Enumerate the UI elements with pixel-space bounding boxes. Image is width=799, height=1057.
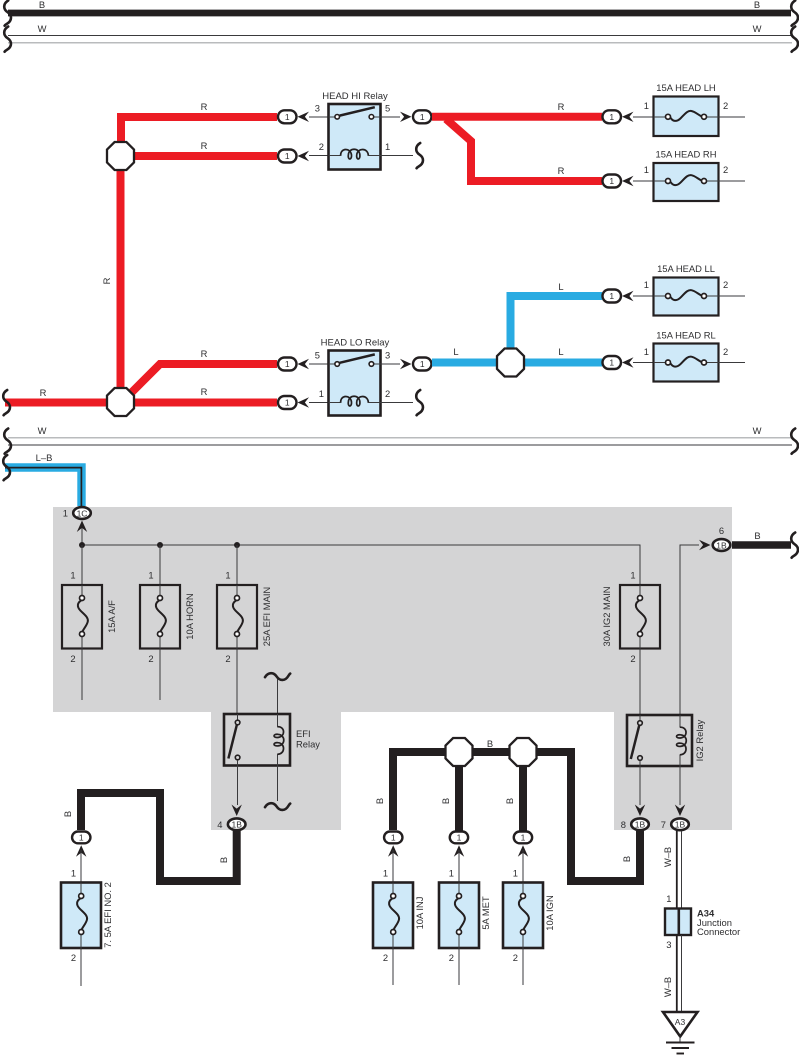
net label W (top right) bbox=[753, 23, 762, 34]
svg-text:15A HEAD RL: 15A HEAD RL bbox=[656, 330, 715, 341]
wire break (LO pin 2) bbox=[416, 390, 423, 415]
pin 3 label (HI) bbox=[315, 103, 320, 114]
svg-text:1: 1 bbox=[513, 868, 518, 879]
wire from LO relay pin 3 bbox=[381, 363, 401, 365]
svg-text:B: B bbox=[440, 798, 451, 804]
svg-text:4: 4 bbox=[217, 819, 222, 830]
svg-text:2: 2 bbox=[319, 141, 324, 152]
svg-text:R: R bbox=[201, 140, 208, 151]
svg-text:15A A/F: 15A A/F bbox=[106, 600, 117, 633]
wire to LO relay pin 1 bbox=[309, 402, 328, 404]
junction node (red, lower octagon) bbox=[107, 388, 134, 416]
pin 2 label (HEAD RH) bbox=[723, 164, 728, 175]
junction connector A34 bbox=[665, 908, 740, 938]
pin 1 label (7.5A EFI NO.2) bbox=[71, 868, 76, 879]
svg-text:1: 1 bbox=[383, 868, 388, 879]
svg-text:1: 1 bbox=[63, 508, 68, 519]
wire bus to fuse 30A IG2 MAIN (vertical) bbox=[639, 545, 641, 585]
wire break (bus W right) bbox=[791, 27, 798, 52]
wire label L (to HEAD LL) bbox=[558, 281, 563, 292]
pin 2 label (5A MET) bbox=[449, 952, 454, 963]
pin 1 label (15A A/F) bbox=[70, 570, 75, 581]
connector 1B (pin 4, EFI relay out) bbox=[228, 818, 246, 830]
pin 1 label (HEAD RL) bbox=[644, 346, 649, 357]
wire to HI relay pin 3 bbox=[309, 116, 328, 118]
wire bus to fuse 25A EFI MAIN bbox=[236, 545, 238, 585]
pin 2 label (30A IG2 MAIN) bbox=[630, 653, 635, 664]
wire R: branch down to 15A HEAD RH bbox=[446, 119, 602, 181]
pin 1 label (LO) bbox=[319, 388, 324, 399]
wire out of fuse HEAD RL bbox=[719, 362, 746, 364]
connector 1 (HEAD HI pin 2 side) bbox=[278, 150, 297, 163]
fuse/relay box background panel bbox=[53, 507, 732, 830]
junction node (red, upper octagon) bbox=[107, 142, 134, 170]
wire to LO relay pin 5 bbox=[309, 363, 328, 365]
svg-text:1B: 1B bbox=[716, 540, 727, 550]
junction dot (bus / 15A A/F) bbox=[79, 542, 85, 548]
wire break above EFI relay coil bbox=[265, 673, 290, 680]
arrowhead into connector (HEAD LH) bbox=[622, 112, 634, 122]
arrowhead up out of connector (7.5A EFI NO.2) bbox=[76, 845, 86, 857]
svg-text:2: 2 bbox=[71, 952, 76, 963]
svg-text:1: 1 bbox=[666, 893, 671, 904]
svg-text:R: R bbox=[201, 348, 208, 359]
wire label R (top branch) bbox=[201, 101, 208, 112]
wire below fuse 10A INJ bbox=[392, 948, 394, 985]
pin 1 label (5A MET) bbox=[449, 868, 454, 879]
wire below fuse 10A HORN bbox=[159, 649, 161, 701]
arrowhead into connector (HEAD RH) bbox=[622, 176, 634, 186]
connector 1 (HI pin 5 out) bbox=[413, 110, 432, 123]
wire EFI relay switch down to connector 1B bbox=[237, 766, 239, 806]
svg-text:L: L bbox=[558, 281, 563, 292]
svg-text:1: 1 bbox=[457, 833, 462, 843]
wire break below EFI relay coil bbox=[265, 803, 290, 810]
svg-text:5: 5 bbox=[315, 350, 320, 361]
connector 1 (HEAD HI pin 3 side) bbox=[278, 110, 297, 123]
connector 1 (10A INJ) bbox=[384, 832, 402, 844]
fuse 15A A/F bbox=[62, 585, 117, 649]
wire break (B out right) bbox=[791, 533, 798, 558]
arrowhead into connector (HI pin 3) bbox=[298, 112, 310, 122]
svg-text:1: 1 bbox=[644, 346, 649, 357]
wire IG2 relay coil up to connector 6 1B bbox=[680, 545, 699, 715]
wire from HI relay pin 1 to break bbox=[381, 155, 414, 157]
connector 1B (pin 8, IG2 relay out) bbox=[631, 818, 649, 830]
wire L-B: blue with black stripe from off-page to connector 1C bbox=[5, 468, 82, 507]
svg-text:1B: 1B bbox=[675, 820, 686, 830]
wire B: node drop to 10A IGN bbox=[519, 765, 527, 831]
arrowhead right into connector 6 1B bbox=[699, 540, 711, 550]
wire out of fuse HEAD RH bbox=[719, 180, 746, 182]
wire: bus W (middle, dark line) bbox=[8, 444, 792, 446]
svg-text:2: 2 bbox=[630, 653, 635, 664]
pin 1 label (10A INJ) bbox=[383, 868, 388, 879]
wire below fuse 5A MET bbox=[458, 948, 460, 985]
pin 2 label (10A INJ) bbox=[383, 952, 388, 963]
svg-text:15A HEAD LL: 15A HEAD LL bbox=[657, 263, 715, 274]
svg-text:B: B bbox=[621, 856, 632, 862]
pin 1 label (30A IG2 MAIN) bbox=[630, 570, 635, 581]
pin 2 label (HEAD LL) bbox=[723, 279, 728, 290]
svg-text:2: 2 bbox=[383, 952, 388, 963]
junction node (B bus, left octagon) bbox=[446, 738, 473, 766]
svg-text:B: B bbox=[218, 857, 229, 863]
pin 2 label (15A A/F) bbox=[70, 653, 75, 664]
pin 2 label (HEAD RL) bbox=[723, 346, 728, 357]
wire R: vertical trunk + top branch to HEAD HI relay pin 3 bbox=[121, 117, 277, 145]
wire label R (LO pin5 branch) bbox=[201, 348, 208, 359]
svg-text:1: 1 bbox=[644, 279, 649, 290]
pin 3 label (LO) bbox=[385, 350, 390, 361]
svg-text:IG2 Relay: IG2 Relay bbox=[694, 719, 705, 761]
connector 1 (7.5A EFI NO.2) bbox=[72, 832, 90, 844]
pin 8 label (1B) bbox=[621, 819, 626, 830]
svg-text:Relay: Relay bbox=[296, 739, 320, 750]
svg-text:W–B: W–B bbox=[662, 847, 673, 867]
fuse 25A EFI MAIN bbox=[217, 585, 272, 649]
pin 2 label (LO) bbox=[385, 388, 390, 399]
wire break (red left feed) bbox=[3, 390, 10, 415]
wire to EFI relay coil (top) bbox=[277, 679, 279, 714]
svg-text:2: 2 bbox=[513, 952, 518, 963]
wire ground stub bbox=[679, 1037, 681, 1043]
fuse 15A HEAD RH bbox=[654, 149, 719, 202]
wire label B (5A MET drop) bbox=[440, 798, 451, 804]
wire break (HI pin 1) bbox=[416, 143, 423, 168]
svg-text:B: B bbox=[62, 811, 73, 817]
svg-text:2: 2 bbox=[148, 653, 153, 664]
pin 1 label (10A HORN) bbox=[148, 570, 153, 581]
wire below fuse 15A A/F bbox=[81, 649, 83, 701]
wire B: node drop to 5A MET bbox=[455, 765, 463, 831]
wire: bus W (middle, gray line) bbox=[8, 437, 792, 439]
pin 5 label (LO) bbox=[315, 350, 320, 361]
svg-text:2: 2 bbox=[723, 346, 728, 357]
ground symbol bbox=[666, 1043, 695, 1054]
svg-text:10A INJ: 10A INJ bbox=[414, 897, 425, 930]
svg-text:8: 8 bbox=[621, 819, 626, 830]
svg-text:1: 1 bbox=[225, 570, 230, 581]
arrowhead into connector (LO pin 5) bbox=[298, 359, 310, 369]
pin 2 label (10A HORN) bbox=[148, 653, 153, 664]
svg-text:B: B bbox=[754, 530, 760, 541]
wire label R (to HEAD RH) bbox=[558, 165, 565, 176]
wire out of fuse HEAD LH bbox=[719, 116, 746, 118]
wire L: junction to 15A HEAD RL bbox=[521, 359, 602, 367]
pin 6 label (1B) bbox=[719, 525, 724, 536]
svg-text:3: 3 bbox=[315, 103, 320, 114]
wire break (L-B left) bbox=[3, 455, 10, 480]
svg-text:R: R bbox=[558, 101, 565, 112]
wire label B (out of pin 6) bbox=[754, 530, 760, 541]
fuse 15A HEAD RL bbox=[654, 330, 719, 382]
wire: bus B (top) bbox=[8, 10, 791, 17]
pin 1 label (HI) bbox=[385, 141, 390, 152]
svg-text:5A MET: 5A MET bbox=[480, 896, 491, 930]
wire label B (left of 7.5A EFI NO.2 drop) bbox=[62, 811, 73, 817]
svg-text:R: R bbox=[101, 277, 112, 284]
net label W (top left) bbox=[38, 23, 47, 34]
wire B: from connector 4 1B loop to 7.5A EFI NO.2 connector bbox=[81, 793, 237, 881]
connector 1C (pin 1) bbox=[73, 507, 91, 519]
wire break (bus B right) bbox=[791, 1, 798, 26]
pin 1 label (25A EFI MAIN) bbox=[225, 570, 230, 581]
connector 1B (pin 7, IG2 coil out) bbox=[671, 818, 689, 830]
wire R: HI out to 15A HEAD LH bbox=[432, 113, 602, 121]
svg-text:1: 1 bbox=[521, 833, 526, 843]
svg-text:B: B bbox=[504, 798, 515, 804]
wire bus to fuse 15A A/F bbox=[81, 545, 83, 585]
svg-text:10A HORN: 10A HORN bbox=[184, 593, 195, 639]
connector 1 (10A IGN) bbox=[514, 832, 532, 844]
svg-text:1: 1 bbox=[285, 398, 290, 408]
svg-text:B: B bbox=[487, 738, 493, 749]
fuse 10A HORN bbox=[140, 585, 195, 649]
wire fuse 30A IG2 MAIN to IG2 relay bbox=[639, 649, 641, 716]
wire label L-B bbox=[36, 452, 53, 463]
wire L: junction up-branch to 15A HEAD LL bbox=[511, 296, 603, 352]
wire label R (pin 2 branch) bbox=[201, 140, 208, 151]
junction node (B bus, right octagon) bbox=[510, 738, 537, 766]
svg-text:7: 7 bbox=[661, 819, 666, 830]
svg-text:1: 1 bbox=[319, 388, 324, 399]
relay: EFI Relay bbox=[224, 714, 320, 766]
svg-text:EFI: EFI bbox=[296, 728, 311, 739]
wire to fuse HEAD LL bbox=[633, 295, 653, 297]
svg-text:15A HEAD RH: 15A HEAD RH bbox=[656, 149, 717, 160]
wire break (bus W left) bbox=[4, 27, 11, 52]
net label B (top right) bbox=[754, 0, 760, 10]
svg-text:B: B bbox=[39, 0, 45, 10]
connector 1 (HEAD RL) bbox=[603, 356, 622, 369]
svg-text:1: 1 bbox=[70, 570, 75, 581]
pin 5 label (HI) bbox=[385, 103, 390, 114]
wire label R (LO pin1 branch) bbox=[201, 386, 208, 397]
wire IG2 relay coil down to connector 7 1B bbox=[679, 766, 681, 805]
net label W (middle right) bbox=[753, 425, 762, 436]
fuse 15A HEAD LL bbox=[654, 263, 719, 316]
wire R: node to HEAD HI relay pin 2 bbox=[134, 152, 277, 160]
wire connector to fuse 7.5A EFI NO.2 bbox=[80, 850, 82, 882]
wire W-B: connector 7 1B down to junction connector A34 bbox=[677, 831, 682, 908]
wire label B (10A IGN drop) bbox=[504, 798, 515, 804]
wire R: left feed from off-page bbox=[5, 399, 110, 407]
wire to fuse HEAD RL bbox=[633, 362, 653, 364]
pin 7 label (1B) bbox=[661, 819, 666, 830]
junction dot (bus / 10A HORN) bbox=[157, 542, 163, 548]
fuse 15A HEAD LH bbox=[654, 82, 719, 136]
svg-text:1: 1 bbox=[79, 833, 84, 843]
wire label R (left feed) bbox=[40, 387, 47, 398]
pin 1 label (1C) bbox=[63, 508, 68, 519]
arrowhead up out of connector (5A MET) bbox=[454, 845, 464, 857]
wire IG2 relay switch down to connector 8 1B bbox=[639, 766, 641, 805]
svg-text:1: 1 bbox=[391, 833, 396, 843]
svg-text:R: R bbox=[558, 165, 565, 176]
svg-text:5: 5 bbox=[385, 103, 390, 114]
svg-text:3: 3 bbox=[385, 350, 390, 361]
ground point A3 (triangle) bbox=[663, 1012, 698, 1037]
wire break (bus W middle left) bbox=[4, 429, 11, 454]
svg-text:1: 1 bbox=[71, 868, 76, 879]
wire: bus W (top, gray line) bbox=[8, 42, 792, 44]
svg-text:2: 2 bbox=[70, 653, 75, 664]
svg-text:1: 1 bbox=[148, 570, 153, 581]
wire W-B: A34 down to ground A3 bbox=[677, 935, 682, 1012]
svg-text:2: 2 bbox=[225, 653, 230, 664]
wire from HI relay pin 5 bbox=[381, 116, 401, 118]
wire to fuse HEAD RH bbox=[633, 180, 653, 182]
wire label R (to HEAD LH) bbox=[558, 101, 565, 112]
pin 1 label (10A IGN) bbox=[513, 868, 518, 879]
net label W (middle left) bbox=[38, 425, 47, 436]
wire: bus W (top, dark line) bbox=[8, 35, 792, 37]
wire L: LO out to junction node bbox=[432, 359, 500, 367]
relay: HEAD LO Relay bbox=[321, 338, 390, 416]
connector 1 (HEAD LH) bbox=[603, 110, 622, 123]
svg-text:R: R bbox=[201, 101, 208, 112]
wire R: node to HEAD LO relay pin 1 bbox=[134, 399, 277, 407]
connector 1 (HEAD RH) bbox=[603, 175, 622, 188]
wire label W-B (upper) bbox=[662, 847, 673, 867]
wire connector to fuse 5A MET bbox=[458, 850, 460, 882]
svg-text:2: 2 bbox=[449, 952, 454, 963]
connector 1 (HEAD LL) bbox=[603, 290, 622, 303]
wire bus to fuse 10A HORN bbox=[159, 545, 161, 585]
svg-text:6: 6 bbox=[719, 525, 724, 536]
arrowhead up out of connector (10A IGN) bbox=[518, 845, 528, 857]
svg-text:HEAD LO Relay: HEAD LO Relay bbox=[321, 338, 390, 349]
svg-text:1: 1 bbox=[609, 112, 614, 122]
svg-text:10A IGN: 10A IGN bbox=[544, 895, 555, 930]
svg-text:1: 1 bbox=[285, 359, 290, 369]
svg-text:15A HEAD LH: 15A HEAD LH bbox=[656, 82, 715, 93]
wire from LO relay pin 2 to break bbox=[381, 402, 414, 404]
svg-text:1: 1 bbox=[609, 358, 614, 368]
pin 4 label (1B) bbox=[217, 819, 222, 830]
wire B out of connector 6 bbox=[732, 541, 791, 549]
net label B (top left) bbox=[39, 0, 45, 10]
svg-text:A3: A3 bbox=[675, 1017, 686, 1027]
fuse 7.5A EFI NO.2 bbox=[61, 882, 113, 948]
wire label B (10A INJ drop) bbox=[374, 798, 385, 804]
svg-text:3: 3 bbox=[666, 939, 671, 950]
svg-text:W–B: W–B bbox=[662, 977, 673, 997]
pin 1 label (HEAD LH) bbox=[644, 100, 649, 111]
arrowhead into connector (HI pin 2) bbox=[298, 151, 310, 161]
wire 1C down to internal bus bbox=[81, 528, 83, 545]
svg-text:R: R bbox=[40, 387, 47, 398]
wire label B (left of loop vertical) bbox=[218, 857, 229, 863]
wire label B (bus between nodes) bbox=[487, 738, 493, 749]
arrowhead up out of connector (10A INJ) bbox=[388, 845, 398, 857]
svg-text:1: 1 bbox=[385, 141, 390, 152]
arrowhead out of LO pin 3 bbox=[400, 359, 412, 369]
pin 1 label (HEAD RH) bbox=[644, 164, 649, 175]
svg-text:2: 2 bbox=[723, 100, 728, 111]
svg-text:R: R bbox=[201, 386, 208, 397]
svg-text:1: 1 bbox=[644, 164, 649, 175]
wire fuse 25A EFI MAIN to EFI relay bbox=[236, 649, 238, 715]
pin 2 label (25A EFI MAIN) bbox=[225, 653, 230, 664]
internal bus wire bbox=[82, 545, 640, 585]
pin 1 label (A34) bbox=[666, 893, 671, 904]
svg-text:1B: 1B bbox=[635, 820, 646, 830]
svg-text:2: 2 bbox=[385, 388, 390, 399]
fuse 5A MET bbox=[439, 883, 491, 949]
svg-text:W: W bbox=[38, 23, 47, 34]
wire R: diagonal branch to HEAD LO relay pin 5 bbox=[128, 364, 277, 396]
wire below fuse 10A IGN bbox=[522, 948, 524, 985]
svg-text:HEAD HI Relay: HEAD HI Relay bbox=[322, 91, 388, 102]
fuse 10A IGN bbox=[503, 883, 555, 949]
relay: HEAD HI Relay bbox=[322, 91, 388, 170]
svg-text:W: W bbox=[753, 23, 762, 34]
svg-text:1: 1 bbox=[420, 359, 425, 369]
arrowhead out of HI pin 5 bbox=[400, 112, 412, 122]
pin 3 label (A34) bbox=[666, 939, 671, 950]
connector 1 (LO pin 3 out) bbox=[413, 358, 432, 371]
wire connector to fuse 10A IGN bbox=[522, 850, 524, 882]
fuse 30A IG2 MAIN bbox=[601, 585, 660, 649]
connector 1 (5A MET) bbox=[450, 832, 468, 844]
pin 2 label (10A IGN) bbox=[513, 952, 518, 963]
svg-text:1: 1 bbox=[285, 151, 290, 161]
arrowhead down into connector 8 1B bbox=[635, 805, 645, 817]
arrowhead up into 1C bbox=[77, 521, 87, 533]
wire EFI relay coil (bottom) to break bbox=[277, 766, 279, 802]
arrowhead down into connector 4 1B bbox=[232, 805, 242, 817]
wire B: main loop from connector 8 1B to INJ/MET/IGN fuses bbox=[393, 752, 640, 881]
wire out of fuse HEAD LL bbox=[719, 295, 746, 297]
svg-text:B: B bbox=[754, 0, 760, 10]
wire label L (to HEAD RL) bbox=[558, 346, 563, 357]
relay: IG2 Relay bbox=[627, 715, 705, 766]
arrowhead down into connector 7 1B bbox=[675, 805, 685, 817]
svg-text:30A IG2 MAIN: 30A IG2 MAIN bbox=[601, 587, 612, 647]
svg-text:1: 1 bbox=[609, 176, 614, 186]
svg-text:2: 2 bbox=[723, 164, 728, 175]
fuse 10A INJ bbox=[373, 883, 425, 949]
junction dot (bus / 25A EFI MAIN) bbox=[234, 542, 240, 548]
svg-text:Connector: Connector bbox=[697, 926, 740, 937]
svg-text:1: 1 bbox=[630, 570, 635, 581]
wire below fuse 7.5A EFI NO.2 bbox=[80, 948, 82, 986]
connector 1B (pin 6) bbox=[713, 539, 731, 551]
connector 1 (HEAD LO pin 5 side) bbox=[278, 358, 297, 371]
pin 2 label (HI) bbox=[319, 141, 324, 152]
wire label R (vertical trunk) bbox=[101, 277, 112, 284]
svg-text:1: 1 bbox=[449, 868, 454, 879]
junction node (blue octagon) bbox=[497, 349, 524, 377]
svg-text:1: 1 bbox=[285, 112, 290, 122]
wire connector to fuse 10A INJ bbox=[392, 850, 394, 882]
svg-text:L: L bbox=[453, 346, 458, 357]
svg-text:W: W bbox=[38, 425, 47, 436]
wire label B (below 8 1B) bbox=[621, 856, 632, 862]
svg-text:1: 1 bbox=[420, 112, 425, 122]
svg-text:W: W bbox=[753, 425, 762, 436]
wire R: vertical trunk between nodes bbox=[117, 166, 125, 392]
svg-text:L: L bbox=[558, 346, 563, 357]
svg-text:7. 5A EFI NO. 2: 7. 5A EFI NO. 2 bbox=[102, 882, 113, 948]
svg-text:2: 2 bbox=[723, 279, 728, 290]
arrowhead into connector (LO pin 1) bbox=[298, 397, 310, 407]
svg-text:1: 1 bbox=[644, 100, 649, 111]
wire break (bus B left) bbox=[4, 1, 11, 26]
svg-text:1B: 1B bbox=[231, 820, 242, 830]
